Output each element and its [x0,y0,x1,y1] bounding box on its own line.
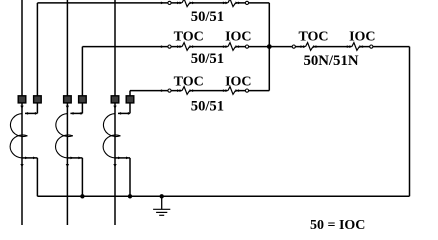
wire: ground relay mid segment [314,46,352,48]
CT B winding arc (upper) [56,114,73,137]
arrow on CT A bottom lead (2) [33,157,36,160]
wire: ground relay row left segment [269,46,305,48]
current arrow on phase A primary (below CT) [20,164,23,167]
wire: phase A relay row right segment [236,2,269,4]
wire: CT B return to common bus [81,158,83,196]
wire: riser CT B to phase B relay row [81,47,83,96]
IOC element (ground relay) [347,45,350,48]
wire: riser CT C to phase C relay row [129,91,131,96]
wire: CT A return to common bus [36,158,38,196]
arrow on CT C top lead (2) [126,112,129,115]
arrow on CT C bottom lead (2) [126,157,129,160]
terminal circle right (phase A relay row) [245,1,248,4]
wire: CT A secondary lead (square down) [36,103,38,114]
TOC element (phase A relay row) [177,2,180,5]
svg-text:50 = IOC: 50 = IOC [310,218,365,230]
wire: phase A relay row mid segment [190,2,227,4]
terminal circle left (phase B relay row) [168,45,171,48]
CT C winding arc (lower) [103,135,120,158]
wire: CT B secondary top lead [70,112,82,114]
terminal circle right (phase C relay row) [245,89,248,92]
ground bar 3 [159,214,164,216]
IOC element (phase C relay row) [223,89,226,92]
ground stem [161,196,163,209]
junction: CT B return on bus [80,194,84,198]
CT C winding arc (upper) [103,114,120,137]
junction: ground connection on bus [160,194,164,198]
wire: riser CT A to phase A relay row [36,3,38,96]
wire: phase B relay row right segment [236,46,269,48]
wire: CT C return to common bus [129,158,131,196]
wire: CT B secondary bottom lead [67,157,82,159]
svg-text:50/51: 50/51 [191,9,224,25]
wire: phase B relay row mid segment [190,46,227,48]
wire: CT B secondary lead (square down) [81,103,83,114]
wire: phase C relay row left segment [130,90,182,92]
svg-text:IOC: IOC [349,30,375,45]
CT C primary terminal square (left) [111,96,119,103]
wire: ground relay right segment [360,46,410,48]
wire: CT C secondary bottom lead [115,157,130,159]
terminal circle left (phase A relay row) [168,1,171,4]
arrow on phase A relay row lead-in [161,2,164,5]
ground bar 2 [156,211,167,213]
TOC element (phase B relay row) [177,45,180,48]
wire: phase C primary conductor [114,0,116,225]
wire: phase A relay row left segment [37,2,181,4]
arrow on CT A top lead [25,112,28,115]
wire: phase C relay row mid segment [190,90,227,92]
arrow on CT B top lead [71,112,74,115]
current arrow on phase B primary (above CT) [66,106,69,109]
CT A primary terminal square (left) [18,96,26,103]
arrow on CT A bottom lead [25,157,28,160]
arrow on CT C bottom lead [118,157,121,160]
CT A winding arc (upper) [10,114,27,137]
svg-text:50/51: 50/51 [191,51,224,67]
current arrow on phase C primary (above CT) [113,106,116,109]
TOC element (ground relay) [301,45,304,48]
wire: phase C relay row right segment [236,90,269,92]
svg-text:TOC: TOC [174,30,204,45]
svg-text:50/51: 50/51 [191,99,224,115]
CT B secondary terminal square (right) [79,96,87,103]
svg-text:IOC: IOC [225,75,251,90]
current arrow on phase A primary (above CT) [20,106,23,109]
wire: phase B relay row left segment [82,46,181,48]
CT B primary terminal square (left) [64,96,72,103]
wire: common junction vertical [268,3,270,91]
svg-text:TOC: TOC [174,75,204,90]
wire: CT C secondary lead (square down) [129,103,131,114]
wire: phase B primary conductor [66,0,68,225]
wire: CT A secondary bottom lead [22,157,37,159]
CT A winding arc (lower) [10,135,27,158]
ground bar 1 [153,208,170,210]
junction node (relay commons) [267,44,272,49]
CT C secondary terminal square (right) [126,96,134,103]
arrow on CT C top lead [118,112,121,115]
arrow on phase C relay row lead-in [161,89,164,92]
current arrow on phase C primary (below CT) [113,164,116,167]
wire: common secondary bus [37,195,409,197]
wire: phase A primary conductor [21,0,23,225]
junction: CT C return on bus [128,194,132,198]
terminal circle right (phase B relay row) [245,45,248,48]
svg-text:TOC: TOC [298,30,328,45]
current arrow on phase B primary (below CT) [66,164,69,167]
arrow on CT A top lead (2) [33,112,36,115]
CT A secondary terminal square (right) [34,96,42,103]
IOC element (phase B relay row) [223,45,226,48]
arrow on phase B relay row lead-in [161,45,164,48]
wire: right return conductor [409,47,411,197]
wire: CT A secondary top lead [25,112,37,114]
svg-text:50N/51N: 50N/51N [303,53,358,69]
arrow on CT B bottom lead [71,157,74,160]
TOC element (phase C relay row) [177,89,180,92]
terminal circle right (ground relay) [370,45,373,48]
IOC element (phase A relay row) [223,2,226,5]
wire: CT C secondary top lead [118,112,130,114]
arrow on CT B top lead (2) [78,112,81,115]
arrow on CT B bottom lead (2) [78,157,81,160]
terminal circle left (ground relay) [292,45,295,48]
CT B winding arc (lower) [56,135,73,158]
svg-text:IOC: IOC [225,30,251,45]
terminal circle left (phase C relay row) [168,89,171,92]
